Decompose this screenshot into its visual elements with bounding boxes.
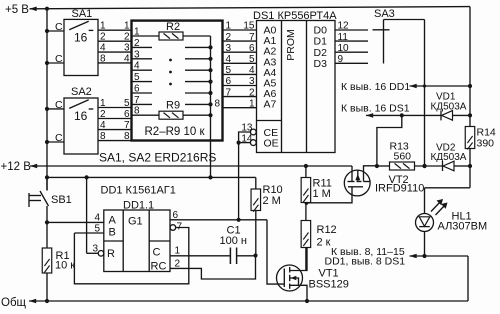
svg-text:8: 8 <box>100 131 106 142</box>
wire R13 to VD2 <box>415 165 443 167</box>
wire R12 to VT1 drain <box>305 248 307 271</box>
svg-text:1: 1 <box>100 98 106 109</box>
wire VD2 to right column <box>454 165 470 167</box>
svg-text:R2–R9 10 к: R2–R9 10 к <box>145 126 206 138</box>
wire D3 to SA3 <box>335 62 368 64</box>
svg-text:DD1, выв. 8 DS1: DD1, выв. 8 DS1 <box>325 256 406 268</box>
DS1 divider left <box>281 21 283 153</box>
VT2 gate wire to R11/R12 node <box>307 187 353 203</box>
junction CE OE on pin6 wire <box>237 218 241 222</box>
junction VT1 source ground <box>305 299 309 303</box>
HL1 light arrows <box>431 201 442 212</box>
VT2 channel seg3 <box>364 181 371 183</box>
resistor R10 <box>251 189 260 211</box>
svg-text:5: 5 <box>124 98 130 109</box>
wire pin2 RC to C1/R10 node <box>170 256 256 280</box>
svg-text:SA1, SA2 ERD216RS: SA1, SA2 ERD216RS <box>99 151 216 165</box>
wire HL1 cathode down <box>424 232 426 257</box>
wire pin4 A input <box>47 221 104 223</box>
wire +5V top rail <box>30 7 471 9</box>
junction bus row6 <box>208 91 212 95</box>
VT1 channel seg3 <box>289 284 291 289</box>
junction SA3 with rail <box>422 164 426 168</box>
svg-text:3: 3 <box>249 76 255 87</box>
junction HL1 cathode <box>422 254 426 258</box>
svg-text:C: C <box>55 21 63 33</box>
wire R pin stub <box>87 252 99 254</box>
svg-text:К выв. 16 DD1: К выв. 16 DD1 <box>341 81 410 93</box>
wire right down to ground <box>467 256 469 301</box>
wire 5V line down to R pin <box>86 177 88 253</box>
wire SA2 pin4 to R-box <box>98 129 132 131</box>
wire R9 left lead <box>132 114 160 116</box>
wire rail to R11 <box>305 166 307 178</box>
HL1 cathode bar <box>419 226 430 228</box>
svg-text:2: 2 <box>249 87 255 98</box>
svg-text:A: A <box>109 215 117 227</box>
svg-text:1: 1 <box>124 21 130 32</box>
junction bus row4 <box>208 68 212 72</box>
wire pin6 output <box>170 219 267 221</box>
svg-text:DS1 КР556РТ4А: DS1 КР556РТ4А <box>253 10 337 22</box>
wire OE <box>239 142 251 144</box>
junction DD1 R branch <box>85 175 89 179</box>
VT1 channel seg1 <box>289 267 291 273</box>
VT2 drain lead <box>364 166 377 182</box>
svg-text:2 к: 2 к <box>317 237 331 249</box>
diode VD1 <box>440 110 442 120</box>
C1 plate left <box>229 248 231 265</box>
VT2 source lead <box>351 166 353 182</box>
svg-text:6: 6 <box>249 43 255 54</box>
arrow to DS1 pin16 <box>366 113 373 118</box>
wire row3 right stub <box>185 58 211 60</box>
switch SA1 wiper tick <box>89 29 94 31</box>
svg-text:1: 1 <box>249 98 255 109</box>
DD1.1 divider R cell <box>104 240 123 242</box>
svg-text:4: 4 <box>100 120 106 131</box>
svg-text:IRFD9110: IRFD9110 <box>375 183 424 195</box>
junction SA1 C1 <box>45 29 49 33</box>
wire HL1 anode <box>424 188 426 214</box>
junction VT2 drain node <box>375 164 379 168</box>
svg-text:PROM: PROM <box>285 29 297 61</box>
svg-text:2: 2 <box>100 109 106 120</box>
IC DD1.1 box <box>104 210 170 272</box>
junction VT2 gate R11 R12 <box>304 201 308 205</box>
SB1 plunger top <box>29 195 41 197</box>
arrow +5V <box>30 7 37 12</box>
junction SA2 C1 <box>45 107 49 111</box>
wire D1 to SA3 <box>335 40 368 42</box>
svg-text:DD1 К1561АГ1: DD1 К1561АГ1 <box>101 185 176 197</box>
junction bus row2 <box>208 45 212 49</box>
junction SA3 with DD1-16 line <box>423 84 426 87</box>
switch SA1 box <box>64 19 98 75</box>
transistor VT1 body <box>277 265 303 291</box>
wire right column from +5V rail <box>469 7 471 188</box>
wire HL1 cathode line <box>410 255 469 257</box>
VT1 gate wire from pin6 <box>267 220 284 284</box>
LED HL1 body <box>416 214 434 232</box>
wire SA2 pin2 to R-box <box>98 118 132 120</box>
wire A6 to DS1 <box>223 96 257 98</box>
svg-text:A7: A7 <box>264 98 277 110</box>
wire row5 left stub <box>132 81 153 83</box>
VT2 substrate arrow <box>357 170 359 181</box>
svg-text:9: 9 <box>338 54 344 65</box>
junction DS1-16 step <box>400 113 404 117</box>
svg-text:4: 4 <box>226 54 232 65</box>
bubble OE <box>250 140 256 146</box>
svg-text:D3: D3 <box>314 58 328 70</box>
wire SA2 C2 stub <box>47 141 64 143</box>
junction R network common <box>208 175 212 179</box>
svg-text:Общ: Общ <box>1 297 27 309</box>
wire row4 right stub <box>185 69 211 71</box>
arrow ground <box>29 299 36 304</box>
junction bus row7 <box>208 102 212 106</box>
junction bus row5 <box>208 80 212 84</box>
svg-text:1: 1 <box>100 21 106 32</box>
wire SA2 pin1 to R-box <box>98 107 132 109</box>
wire DS1-16 line left <box>366 114 441 116</box>
C1 plate right <box>236 248 238 265</box>
svg-text:C: C <box>153 247 161 259</box>
svg-text:АЛ307ВМ: АЛ307ВМ <box>438 221 488 233</box>
resistor R13 <box>390 162 415 170</box>
svg-text:5: 5 <box>226 65 232 76</box>
svg-text:КД503А: КД503А <box>431 101 467 112</box>
junction bus row8 <box>208 113 212 117</box>
wire row3 left stub <box>132 58 153 60</box>
wire R11 to R12 <box>305 203 307 221</box>
junction right column DD1-16 <box>468 84 472 88</box>
svg-text:100 н: 100 н <box>220 235 247 247</box>
resistor R1 <box>42 248 52 273</box>
svg-text:R: R <box>107 248 115 260</box>
VT1 gate bar <box>283 269 285 288</box>
svg-text:3: 3 <box>124 43 130 54</box>
svg-text:8: 8 <box>124 131 130 142</box>
wire SB1 to R1 <box>46 206 48 248</box>
wire A4 to DS1 <box>223 73 257 75</box>
wire SA1 pin2 to R-box <box>98 40 132 42</box>
svg-text:6: 6 <box>226 76 232 87</box>
wire SA2 pin8 to R-box <box>98 140 132 142</box>
wire pin7 feedback to pin5 <box>74 228 188 284</box>
svg-text:К выв. 16 DS1: К выв. 16 DS1 <box>341 103 410 115</box>
wire DD1-16 line <box>410 85 471 87</box>
svg-text:5: 5 <box>94 223 100 234</box>
arrow +12V <box>30 164 37 169</box>
wire VD1 to right column <box>453 114 471 116</box>
svg-text:SA1: SA1 <box>72 8 93 20</box>
svg-text:R12: R12 <box>317 224 337 236</box>
SB1 plunger bar <box>28 193 30 207</box>
junction SA1 C2 <box>45 61 49 65</box>
svg-text:560: 560 <box>394 150 412 162</box>
wire row4 left stub <box>132 69 153 71</box>
junction bus 5V line <box>45 175 49 179</box>
wire R2 left lead <box>132 35 160 37</box>
wire CE down <box>239 132 251 143</box>
svg-text:2 М: 2 М <box>263 195 281 207</box>
wire CE OE to DD1 pin6 net <box>238 143 240 220</box>
VT2 channel seg1 <box>348 181 355 183</box>
svg-text:8: 8 <box>214 98 220 109</box>
wire row5 right stub <box>185 81 211 83</box>
DS1 divider CE row <box>257 120 282 122</box>
VT2 gate bar <box>348 186 363 188</box>
svg-text:1: 1 <box>226 21 232 32</box>
wire drain node to R13 <box>377 165 390 167</box>
wire row2 right stub <box>185 46 211 48</box>
wire D0 to SA3 <box>335 29 368 31</box>
svg-text:6: 6 <box>124 109 130 120</box>
resistor network box R2-R9 <box>132 21 223 141</box>
svg-text:2: 2 <box>175 259 181 270</box>
arrow ground reference <box>410 254 417 259</box>
wire ground rail <box>29 300 468 302</box>
wire DS1-16 step down to VT2 drain <box>377 115 402 166</box>
junction CE OE <box>237 141 241 145</box>
wire R14 branch to HL1 <box>425 187 471 189</box>
DD1.1 divider right <box>148 210 150 272</box>
junction SA2 C2 <box>45 140 49 144</box>
svg-text:4: 4 <box>94 213 100 224</box>
switch SA2 box <box>64 98 98 154</box>
SB1 blade <box>40 191 49 206</box>
wire A0 to DS1 <box>223 29 257 31</box>
wire C1 to node <box>237 255 256 257</box>
svg-text:C: C <box>55 99 63 111</box>
svg-text:B: B <box>109 227 116 239</box>
svg-text:G1: G1 <box>128 216 143 228</box>
junction A input node <box>45 220 49 224</box>
wire row6 right stub <box>185 92 211 94</box>
VT1 drain lead to R12 <box>290 248 307 271</box>
svg-text:+12 В: +12 В <box>1 161 32 173</box>
VT2 channel seg2 <box>357 181 362 183</box>
svg-text:SA3: SA3 <box>374 8 395 20</box>
svg-text:5: 5 <box>249 54 255 65</box>
svg-text:C: C <box>55 53 63 65</box>
svg-text:10: 10 <box>338 43 350 54</box>
wire row2 left stub <box>132 46 153 48</box>
svg-text:7: 7 <box>124 120 130 131</box>
junction R1 ground <box>45 299 49 303</box>
wire SA3 common down <box>424 20 426 167</box>
resistor R2 <box>159 32 183 40</box>
wire D2 to SA3 <box>335 51 368 53</box>
bubble CE <box>250 129 256 135</box>
svg-text:7: 7 <box>177 222 183 233</box>
svg-text:16: 16 <box>74 31 88 45</box>
svg-text:4: 4 <box>100 43 106 54</box>
svg-text:SA2: SA2 <box>71 86 92 98</box>
wire SA3 common top <box>384 19 425 21</box>
wire row7 left stub <box>132 103 153 105</box>
wire common bus down to +5V line <box>210 36 212 177</box>
wire A1 to DS1 <box>223 40 257 42</box>
SB1 plunger bottom <box>29 200 41 202</box>
svg-text:2: 2 <box>226 32 232 43</box>
IC DS1 box <box>257 21 336 153</box>
svg-text:3: 3 <box>92 243 98 254</box>
svg-text:11: 11 <box>338 32 349 43</box>
svg-text:2: 2 <box>100 32 106 43</box>
DS1 divider right <box>306 21 308 153</box>
wire SA1 C1 stub <box>47 30 64 32</box>
svg-text:4: 4 <box>124 53 130 64</box>
junction right column VD2 <box>468 164 472 168</box>
svg-text:RC: RC <box>151 261 167 273</box>
VT1 channel seg2 <box>289 275 291 281</box>
wire R10 to node <box>255 211 257 256</box>
junction C1 R10 RC node <box>253 253 257 257</box>
wire A2 to DS1 <box>223 51 257 53</box>
wire row7 right stub <box>185 103 211 105</box>
wire +5V distribution line <box>47 176 256 178</box>
wire A5 to DS1 <box>223 85 257 87</box>
svg-text:BSS129: BSS129 <box>309 279 349 291</box>
ellipsis dots inside R-box <box>169 59 172 62</box>
transistor VT2 body <box>344 170 370 196</box>
svg-text:+5 В: +5 В <box>5 4 29 16</box>
switch SA3 bar <box>383 20 385 64</box>
wire +5V bus vertical <box>46 9 48 191</box>
arrow to DD1 pin16 <box>410 84 417 89</box>
junction R11 top <box>304 164 308 168</box>
svg-text:390: 390 <box>477 138 495 150</box>
svg-text:R9: R9 <box>166 100 180 112</box>
wire to SB1 top <box>46 177 48 190</box>
resistor R11 <box>301 178 311 203</box>
wire pin1 to C1 <box>170 255 230 257</box>
resistor R14 <box>465 127 475 149</box>
svg-text:OE: OE <box>264 137 279 149</box>
svg-text:7: 7 <box>249 32 255 43</box>
DD1.1 divider left <box>122 210 124 272</box>
wire SA2 C1 stub <box>47 108 64 110</box>
DD1.1 divider C cell <box>149 240 170 242</box>
switch SA1 wiper <box>69 21 89 30</box>
svg-text:КД503А: КД503А <box>431 152 467 163</box>
wire row6 left stub <box>132 92 153 94</box>
bubble pin 7 <box>170 225 176 231</box>
wire A7 to DS1 <box>223 107 257 109</box>
svg-text:1: 1 <box>175 245 181 256</box>
wire R9 right lead <box>183 114 211 116</box>
svg-text:C: C <box>55 132 63 144</box>
wire +12V rail left <box>30 165 352 167</box>
svg-text:4: 4 <box>249 65 255 76</box>
svg-text:16: 16 <box>74 109 88 123</box>
resistor R9 <box>159 111 183 119</box>
junction bus row3 <box>208 57 212 61</box>
svg-text:R2: R2 <box>166 21 180 33</box>
svg-text:12: 12 <box>338 21 350 32</box>
wire R2 right lead <box>183 35 211 37</box>
wire SA1 C2 stub <box>47 62 64 64</box>
svg-text:2: 2 <box>124 32 130 43</box>
wire R1 to ground <box>46 273 48 301</box>
resistor R12 <box>301 221 311 248</box>
wire SA1 pin1 to R-box <box>98 29 132 31</box>
svg-text:7: 7 <box>226 87 232 98</box>
svg-text:SB1: SB1 <box>51 194 72 206</box>
svg-text:6: 6 <box>173 210 179 221</box>
wire A3 to DS1 <box>223 62 257 64</box>
switch SA2 wiper tick <box>89 108 94 110</box>
svg-text:10 к: 10 к <box>55 260 75 272</box>
svg-text:1 М: 1 М <box>313 188 331 200</box>
switch SA2 wiper <box>69 100 89 109</box>
switch SA3 wiper tick <box>373 29 390 31</box>
junction HL1 top feed / SA3 <box>423 164 427 168</box>
VT1 source lead to ground <box>290 285 307 301</box>
wire pin5 B input <box>74 232 103 234</box>
wire SA1 pin8 to R-box <box>98 62 132 64</box>
wire SA1 pin4 to R-box <box>98 51 132 53</box>
junction +5V bus <box>45 7 49 11</box>
diode VD2 <box>442 161 444 171</box>
svg-text:3: 3 <box>226 43 232 54</box>
bubble pin 3 R <box>98 251 104 257</box>
VT1 substrate arrow <box>290 278 299 285</box>
wire 5V line to R10 <box>255 177 257 189</box>
junction right column VD1 <box>468 113 472 117</box>
svg-text:15: 15 <box>243 21 255 32</box>
svg-text:8: 8 <box>100 53 106 64</box>
